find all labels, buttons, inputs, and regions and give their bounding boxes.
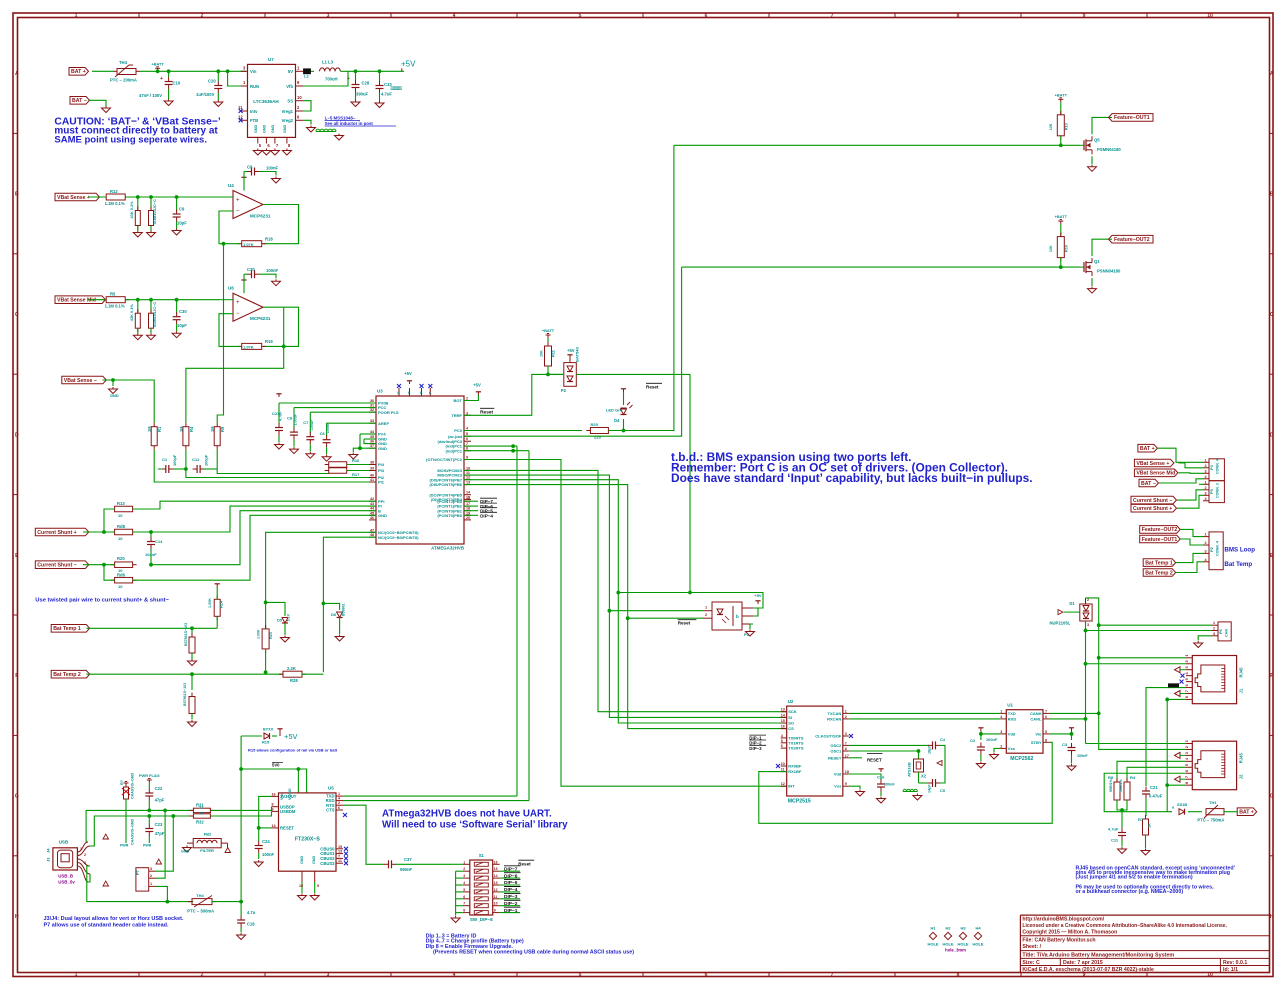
svg-text:2: 2 bbox=[1000, 744, 1002, 748]
svg-text:Id: 1/1: Id: 1/1 bbox=[1223, 967, 1238, 973]
svg-text:P2: P2 bbox=[561, 388, 567, 393]
svg-text:C: C bbox=[15, 312, 19, 318]
svg-text:39: 39 bbox=[370, 467, 374, 471]
svg-text:R10: R10 bbox=[1064, 123, 1069, 130]
svg-text:Vcc: Vcc bbox=[280, 793, 284, 800]
svg-text:1M: 1M bbox=[147, 426, 152, 432]
svg-text:Copyright 2015 — Milton A. T: Copyright 2015 — Milton A. Thomason bbox=[1022, 929, 1117, 935]
svg-text:1.07K: 1.07K bbox=[243, 345, 254, 350]
svg-text:GND: GND bbox=[312, 855, 316, 864]
svg-text:3: 3 bbox=[150, 867, 152, 871]
svg-text:3: 3 bbox=[84, 861, 86, 865]
svg-text:U1: U1 bbox=[1007, 703, 1013, 708]
svg-text:U2: U2 bbox=[788, 699, 794, 704]
svg-text:H1: H1 bbox=[930, 926, 936, 931]
svg-text:RUN: RUN bbox=[250, 84, 259, 89]
svg-text:J3/J4: Dual layout allows fo: J3/J4: Dual layout allows for vert or Ho… bbox=[44, 916, 184, 922]
svg-text:20: 20 bbox=[466, 516, 470, 520]
svg-text:−: − bbox=[236, 209, 240, 215]
svg-text:100pF: 100pF bbox=[204, 454, 209, 466]
svg-text:R24: R24 bbox=[219, 600, 224, 608]
svg-text:43K 0.1%: 43K 0.1% bbox=[129, 304, 134, 322]
svg-text:C11: C11 bbox=[1111, 838, 1119, 843]
svg-text:46: 46 bbox=[370, 516, 374, 520]
svg-text:1.1M 0.1%: 1.1M 0.1% bbox=[105, 304, 125, 309]
svg-text:8: 8 bbox=[272, 803, 274, 807]
svg-text:1: 1 bbox=[463, 860, 465, 864]
svg-text:10: 10 bbox=[297, 95, 302, 100]
svg-text:15: 15 bbox=[299, 884, 303, 888]
svg-text:32: 32 bbox=[370, 408, 374, 412]
svg-text:DIP−1: DIP−1 bbox=[504, 908, 518, 914]
svg-text:|||: ||| bbox=[397, 86, 402, 90]
svg-text:4: 4 bbox=[453, 13, 456, 19]
svg-text:SCK: SCK bbox=[788, 709, 797, 714]
svg-text:ATS16B: ATS16B bbox=[907, 762, 912, 777]
svg-text:DIP−2: DIP−2 bbox=[749, 741, 762, 746]
svg-text:2: 2 bbox=[1213, 627, 1215, 631]
svg-text:RESET: RESET bbox=[280, 826, 294, 831]
svg-text:CAN: CAN bbox=[1225, 629, 1229, 637]
svg-text:B57861S−103: B57861S−103 bbox=[184, 623, 188, 646]
svg-text:2: 2 bbox=[1205, 541, 1207, 545]
svg-text:43: 43 bbox=[370, 502, 374, 506]
svg-text:2: 2 bbox=[466, 397, 468, 401]
svg-text:Reset: Reset bbox=[646, 385, 659, 390]
svg-text:1K: 1K bbox=[1148, 823, 1152, 828]
svg-text:TXD: TXD bbox=[1008, 711, 1016, 716]
svg-text:P6: P6 bbox=[1218, 628, 1223, 634]
svg-text:R13: R13 bbox=[117, 501, 125, 506]
svg-text:Vdd: Vdd bbox=[1008, 731, 1016, 736]
svg-text:INT: INT bbox=[788, 784, 795, 789]
svg-text:DIP−2: DIP−2 bbox=[504, 901, 518, 907]
svg-text:100nF: 100nF bbox=[266, 166, 279, 171]
svg-text:2.2K: 2.2K bbox=[287, 666, 296, 671]
svg-text:TX1RTS: TX1RTS bbox=[788, 740, 804, 745]
svg-text:R18: R18 bbox=[265, 237, 273, 242]
svg-text:9: 9 bbox=[845, 782, 847, 786]
svg-text:6: 6 bbox=[705, 972, 708, 978]
svg-text:PC0: PC0 bbox=[454, 428, 463, 433]
svg-text:GND: GND bbox=[181, 850, 190, 854]
svg-text:4.7uF: 4.7uF bbox=[1108, 827, 1119, 832]
svg-text:RXCAN: RXCAN bbox=[827, 716, 841, 721]
svg-text:8: 8 bbox=[957, 13, 960, 19]
svg-text:A: A bbox=[15, 71, 19, 77]
svg-text:2: 2 bbox=[1087, 598, 1089, 602]
svg-text:G: G bbox=[1270, 794, 1274, 800]
svg-text:Reset: Reset bbox=[480, 410, 493, 416]
svg-text:700uH: 700uH bbox=[325, 77, 338, 82]
svg-text:15: 15 bbox=[338, 845, 342, 849]
svg-text:Current Shunt −: Current Shunt − bbox=[37, 563, 76, 569]
svg-text:7: 7 bbox=[338, 854, 340, 858]
svg-text:18pF: 18pF bbox=[928, 745, 932, 754]
svg-text:16: 16 bbox=[781, 725, 785, 729]
svg-text:or a bulkhead connector (e.g.: or a bulkhead connector (e.g. NMEA−2000) bbox=[1076, 889, 1184, 895]
svg-text:HOLE: HOLE bbox=[957, 942, 968, 947]
svg-text:14pF: 14pF bbox=[928, 784, 932, 793]
svg-text:Vin: Vin bbox=[250, 69, 257, 74]
svg-text:DIP−4: DIP−4 bbox=[504, 887, 518, 893]
svg-text:CONN_4: CONN_4 bbox=[1216, 540, 1220, 556]
svg-text:1: 1 bbox=[1213, 621, 1215, 625]
svg-text:Title: TiVa Arduino Battery Ma: Title: TiVa Arduino Battery Management/M… bbox=[1022, 952, 1174, 958]
svg-text:H3: H3 bbox=[960, 926, 966, 931]
svg-text:DIP−6: DIP−6 bbox=[504, 873, 518, 879]
svg-text:6: 6 bbox=[338, 806, 340, 810]
svg-text:PI1: PI1 bbox=[378, 480, 385, 485]
svg-text:7: 7 bbox=[466, 442, 468, 446]
svg-text:USB_5v: USB_5v bbox=[58, 880, 75, 885]
svg-text:C9: C9 bbox=[247, 165, 253, 170]
svg-text:S1: S1 bbox=[479, 853, 485, 858]
svg-text:41: 41 bbox=[370, 478, 374, 482]
svg-text:R15: R15 bbox=[262, 740, 270, 745]
svg-text:RJ45: RJ45 bbox=[1239, 667, 1244, 678]
svg-text:R12: R12 bbox=[110, 189, 118, 194]
svg-text:13: 13 bbox=[781, 708, 785, 712]
svg-text:R4: R4 bbox=[189, 426, 194, 432]
svg-text:Vreg2: Vreg2 bbox=[282, 118, 294, 123]
svg-text:PWR: PWR bbox=[120, 844, 129, 848]
svg-text:Q5: Q5 bbox=[1094, 137, 1100, 142]
svg-text:L2: L2 bbox=[304, 74, 309, 79]
svg-text:10: 10 bbox=[118, 513, 123, 518]
svg-text:D1: D1 bbox=[1069, 601, 1075, 606]
svg-text:38: 38 bbox=[370, 461, 374, 465]
svg-text:2: 2 bbox=[463, 867, 465, 871]
svg-text:12: 12 bbox=[466, 476, 470, 480]
svg-text:BAT +: BAT + bbox=[71, 69, 86, 75]
svg-text:DIP−5: DIP−5 bbox=[504, 880, 518, 886]
svg-text:ATmega32HVB does not have UART: ATmega32HVB does not have UART. bbox=[382, 809, 552, 820]
svg-text:11: 11 bbox=[466, 471, 470, 475]
svg-text:RX1BF: RX1BF bbox=[788, 769, 802, 774]
svg-text:FT230X−S: FT230X−S bbox=[295, 837, 320, 843]
svg-text:SO: SO bbox=[788, 721, 794, 726]
svg-text:Date: 7 apr 2015: Date: 7 apr 2015 bbox=[1063, 960, 1103, 966]
svg-text:BAT −: BAT − bbox=[72, 98, 87, 104]
svg-text:5: 5 bbox=[579, 13, 582, 19]
svg-text:3: 3 bbox=[1087, 623, 1089, 627]
svg-text:16: 16 bbox=[466, 497, 470, 501]
svg-text:GND: GND bbox=[110, 393, 119, 398]
svg-text:Use twisted pair wire to curre: Use twisted pair wire to current shunt+ … bbox=[35, 598, 169, 604]
svg-text:16: 16 bbox=[272, 792, 276, 796]
svg-text:Bat Temp 1: Bat Temp 1 bbox=[53, 626, 81, 632]
svg-text:59R/1%: 59R/1% bbox=[1119, 778, 1123, 792]
svg-text:PTC − 200mA: PTC − 200mA bbox=[110, 78, 137, 83]
svg-text:11: 11 bbox=[338, 859, 342, 863]
svg-text:Q1: Q1 bbox=[1094, 259, 1100, 264]
svg-text:PI3: PI3 bbox=[378, 468, 385, 473]
svg-text:1: 1 bbox=[338, 792, 340, 796]
svg-text:Vio: Vio bbox=[1035, 731, 1042, 736]
svg-text:100nF: 100nF bbox=[1077, 754, 1088, 758]
svg-text:C21: C21 bbox=[1150, 785, 1158, 790]
svg-text:D6: D6 bbox=[331, 612, 337, 617]
svg-text:PI4: PI4 bbox=[378, 462, 385, 467]
svg-text:+BATT: +BATT bbox=[1055, 214, 1068, 219]
svg-text:P7 allows use of standard head: P7 allows use of standard header cable i… bbox=[44, 923, 169, 929]
svg-text:VBat Sense Mid: VBat Sense Mid bbox=[57, 298, 96, 304]
svg-text:10K: 10K bbox=[1049, 245, 1053, 252]
svg-text:3: 3 bbox=[845, 732, 847, 736]
svg-text:D5: D5 bbox=[277, 618, 283, 623]
svg-text:17: 17 bbox=[845, 754, 849, 758]
svg-text:2: 2 bbox=[201, 972, 204, 978]
svg-text:PTC − 500mA: PTC − 500mA bbox=[187, 909, 214, 914]
svg-text:+5V: +5V bbox=[754, 593, 762, 598]
svg-text:Rd8: Rd8 bbox=[117, 524, 126, 529]
svg-text:BOT: BOT bbox=[454, 398, 463, 403]
svg-text:10: 10 bbox=[781, 762, 785, 766]
svg-text:3: 3 bbox=[1205, 549, 1207, 553]
svg-text:7: 7 bbox=[1184, 690, 1189, 692]
svg-text:BAT54S: BAT54S bbox=[575, 347, 580, 362]
svg-text:B: B bbox=[15, 192, 19, 198]
svg-text:R32: R32 bbox=[196, 820, 204, 825]
svg-text:RXD: RXD bbox=[1008, 716, 1017, 721]
svg-text:1: 1 bbox=[1205, 480, 1207, 484]
svg-text:5: 5 bbox=[781, 739, 783, 743]
svg-text:R19: R19 bbox=[265, 339, 273, 344]
svg-text:1.00uF: 1.00uF bbox=[294, 413, 298, 425]
svg-text:GND: GND bbox=[378, 446, 387, 451]
svg-text:Intv: Intv bbox=[250, 109, 258, 114]
svg-text:RESET: RESET bbox=[867, 758, 882, 763]
svg-text:5.1V: 5.1V bbox=[287, 613, 291, 621]
svg-text:NC/(OC0−B0/PCINT8): NC/(OC0−B0/PCINT8) bbox=[378, 535, 419, 540]
svg-text:Reset: Reset bbox=[678, 621, 691, 626]
svg-text:PTC − 750mA: PTC − 750mA bbox=[1197, 818, 1224, 823]
svg-text:8: 8 bbox=[957, 972, 960, 978]
svg-text:U7: U7 bbox=[268, 57, 274, 62]
svg-text:FILTER: FILTER bbox=[200, 848, 214, 853]
svg-text:R1: R1 bbox=[157, 426, 162, 432]
svg-text:R7: R7 bbox=[1138, 817, 1144, 822]
svg-text:R5: R5 bbox=[110, 292, 116, 297]
svg-text:1.07K: 1.07K bbox=[243, 242, 254, 247]
svg-text:Vdd: Vdd bbox=[834, 772, 842, 777]
svg-text:C: C bbox=[1270, 312, 1274, 318]
svg-text:C1: C1 bbox=[162, 457, 168, 462]
svg-text:B57861S−103: B57861S−103 bbox=[183, 683, 187, 706]
svg-text:R20: R20 bbox=[117, 556, 125, 561]
svg-text:(DIS/PCINT5)PB6: (DIS/PCINT5)PB6 bbox=[430, 482, 463, 487]
svg-text:VBat Sense Mid: VBat Sense Mid bbox=[1136, 471, 1175, 477]
svg-text:USBDM: USBDM bbox=[280, 809, 296, 814]
svg-text:CLKOUT/SOF: CLKOUT/SOF bbox=[815, 734, 842, 739]
svg-text:1.00K: 1.00K bbox=[257, 629, 261, 639]
svg-text:H: H bbox=[1270, 914, 1274, 920]
svg-text:17: 17 bbox=[466, 502, 470, 506]
svg-text:H2: H2 bbox=[945, 926, 951, 931]
svg-text:5: 5 bbox=[579, 972, 582, 978]
svg-text:100uF: 100uF bbox=[310, 419, 314, 430]
svg-text:VBat Sense −: VBat Sense − bbox=[64, 378, 97, 384]
svg-text:Vss: Vss bbox=[834, 784, 842, 789]
svg-text:MCP2562: MCP2562 bbox=[1010, 756, 1033, 762]
svg-text:1M: 1M bbox=[210, 426, 215, 432]
svg-text:100pF: 100pF bbox=[172, 454, 177, 466]
svg-text:2: 2 bbox=[201, 13, 204, 19]
svg-text:R?: R? bbox=[120, 779, 124, 785]
svg-text:+5V: +5V bbox=[284, 732, 298, 741]
svg-text:47: 47 bbox=[370, 528, 374, 532]
svg-text:7: 7 bbox=[831, 972, 834, 978]
svg-text:R17: R17 bbox=[352, 472, 360, 477]
svg-text:47pF: 47pF bbox=[155, 798, 165, 803]
svg-text:+: + bbox=[236, 198, 240, 204]
svg-text:100nF: 100nF bbox=[266, 268, 279, 273]
svg-text:5: 5 bbox=[463, 888, 465, 892]
svg-text:J3: J3 bbox=[46, 857, 51, 862]
svg-text:D: D bbox=[1270, 432, 1274, 438]
svg-text:15: 15 bbox=[494, 867, 498, 871]
svg-text:(Just jumper 4/1 and 5/2 to en: (Just jumper 4/1 and 5/2 to enable termi… bbox=[1076, 875, 1193, 881]
svg-text:1: 1 bbox=[1205, 458, 1207, 462]
svg-text:18: 18 bbox=[845, 770, 849, 774]
svg-text:J4: J4 bbox=[46, 848, 51, 853]
svg-text:CHASSIS−GND: CHASSIS−GND bbox=[131, 773, 135, 799]
svg-text:LED Grn: LED Grn bbox=[606, 407, 623, 412]
svg-text:b: b bbox=[736, 614, 739, 619]
svg-text:R11: R11 bbox=[551, 349, 556, 357]
svg-text:PWR: PWR bbox=[143, 844, 152, 848]
svg-text:SOM103JC−C: SOM103JC−C bbox=[152, 302, 157, 328]
svg-text:HOLE: HOLE bbox=[942, 942, 953, 947]
svg-text:GND: GND bbox=[300, 855, 304, 864]
svg-text:Current Shunt −: Current Shunt − bbox=[1133, 498, 1172, 504]
svg-text:PSNN04180: PSNN04180 bbox=[1097, 269, 1121, 274]
svg-text:2: 2 bbox=[84, 853, 86, 857]
svg-text:GND: GND bbox=[271, 124, 275, 133]
svg-text:OSC2: OSC2 bbox=[830, 743, 842, 748]
svg-text:C18: C18 bbox=[247, 922, 255, 927]
svg-text:11: 11 bbox=[494, 895, 498, 899]
svg-text:8: 8 bbox=[1045, 738, 1047, 742]
svg-text:Vss: Vss bbox=[1008, 746, 1016, 751]
svg-text:DIP−3: DIP−3 bbox=[749, 746, 762, 751]
svg-text:4: 4 bbox=[453, 972, 456, 978]
svg-text:7: 7 bbox=[845, 741, 847, 745]
svg-text:+BATT: +BATT bbox=[542, 328, 555, 333]
svg-text:(Prevents RESET when connectin: (Prevents RESET when connecting USB cabl… bbox=[433, 950, 634, 956]
svg-text:1: 1 bbox=[1205, 533, 1207, 537]
svg-text:http://arduinoBMS.blogspot.com: http://arduinoBMS.blogspot.com/ bbox=[1022, 917, 1104, 923]
svg-text:TH1: TH1 bbox=[1209, 800, 1217, 805]
svg-text:C24: C24 bbox=[262, 839, 270, 844]
svg-text:100nF: 100nF bbox=[986, 737, 998, 742]
svg-text:J2: J2 bbox=[1239, 774, 1244, 779]
svg-text:1: 1 bbox=[845, 709, 847, 713]
svg-text:7: 7 bbox=[463, 902, 465, 906]
svg-text:CTS: CTS bbox=[326, 808, 335, 813]
svg-text:Does have standard ‘Input’ cap: Does have standard ‘Input’ capability, b… bbox=[671, 471, 1033, 485]
svg-text:(OTN/OCT/INT)PC2: (OTN/OCT/INT)PC2 bbox=[426, 457, 463, 462]
svg-text:SOM103JC−C: SOM103JC−C bbox=[152, 199, 157, 225]
svg-text:OSC1: OSC1 bbox=[830, 749, 842, 754]
svg-text:3: 3 bbox=[1213, 632, 1215, 636]
svg-text:15: 15 bbox=[781, 719, 785, 723]
svg-text:U4: U4 bbox=[228, 183, 234, 188]
svg-text:59R/1%: 59R/1% bbox=[1109, 778, 1113, 792]
svg-text:11: 11 bbox=[781, 768, 785, 772]
svg-text:Size: C: Size: C bbox=[1022, 960, 1040, 966]
svg-text:1: 1 bbox=[80, 847, 82, 851]
svg-text:Feature−OUT2: Feature−OUT2 bbox=[1114, 237, 1150, 243]
svg-text:4: 4 bbox=[463, 881, 465, 885]
svg-text:MCP6231: MCP6231 bbox=[250, 214, 271, 219]
svg-text:C4: C4 bbox=[940, 737, 946, 742]
svg-text:DIP−7: DIP−7 bbox=[504, 866, 518, 872]
svg-text:1.00K: 1.00K bbox=[208, 598, 212, 608]
svg-text:RESET: RESET bbox=[828, 755, 842, 760]
svg-text:GND: GND bbox=[262, 124, 266, 133]
svg-text:Feature−OUT1: Feature−OUT1 bbox=[1114, 115, 1150, 121]
svg-text:CANL: CANL bbox=[1030, 716, 1042, 721]
svg-text:C7: C7 bbox=[303, 420, 309, 425]
svg-text:R8: R8 bbox=[1108, 775, 1114, 780]
svg-text:5V: 5V bbox=[288, 69, 293, 74]
svg-text:220: 220 bbox=[594, 435, 602, 440]
svg-text:+BATT: +BATT bbox=[1055, 92, 1068, 97]
svg-text:hole_3mm: hole_3mm bbox=[945, 948, 966, 953]
svg-text:J1: J1 bbox=[1239, 688, 1244, 693]
svg-text:C19: C19 bbox=[173, 81, 181, 86]
svg-text:9: 9 bbox=[466, 456, 468, 460]
svg-text:18: 18 bbox=[466, 507, 470, 511]
svg-text:100nF: 100nF bbox=[884, 783, 895, 787]
svg-text:8: 8 bbox=[466, 447, 468, 451]
svg-text:6: 6 bbox=[466, 437, 468, 441]
svg-text:10: 10 bbox=[118, 584, 123, 589]
svg-text:3: 3 bbox=[327, 972, 330, 978]
svg-text:BYXX: BYXX bbox=[263, 728, 274, 732]
svg-text:L1 L3: L1 L3 bbox=[322, 60, 334, 65]
svg-text:C16: C16 bbox=[877, 775, 885, 780]
svg-text:CONN_4: CONN_4 bbox=[1216, 458, 1220, 474]
svg-text:14: 14 bbox=[494, 874, 498, 878]
svg-text:USB: USB bbox=[59, 840, 69, 845]
svg-text:R9: R9 bbox=[220, 426, 225, 432]
svg-text:SS1B: SS1B bbox=[1177, 802, 1187, 807]
svg-text:C12: C12 bbox=[192, 457, 200, 462]
svg-text:6: 6 bbox=[705, 13, 708, 19]
svg-text:MCP6231: MCP6231 bbox=[250, 316, 271, 321]
svg-text:P2: P2 bbox=[1209, 546, 1214, 552]
svg-text:Current Shunt +: Current Shunt + bbox=[37, 530, 76, 536]
svg-text:See all inductor in post: See all inductor in post bbox=[325, 121, 374, 126]
svg-text:Feature−OUT1: Feature−OUT1 bbox=[1142, 537, 1178, 543]
svg-text:C20: C20 bbox=[208, 79, 216, 84]
svg-text:0.47uF: 0.47uF bbox=[1149, 794, 1163, 799]
svg-text:Sheet: /: Sheet: / bbox=[1022, 944, 1041, 950]
svg-text:SW_DIP−8: SW_DIP−8 bbox=[470, 917, 493, 922]
svg-text:File: CAN Battery Monitor.sch: File: CAN Battery Monitor.sch bbox=[1022, 938, 1095, 944]
svg-text:1.1M 0.1%: 1.1M 0.1% bbox=[105, 201, 125, 206]
svg-text:42: 42 bbox=[370, 497, 374, 501]
svg-text:Licensed under a Creative Comm: Licensed under a Creative Commons Attrib… bbox=[1022, 923, 1227, 929]
svg-text:D4: D4 bbox=[614, 418, 620, 423]
svg-text:10pF: 10pF bbox=[177, 221, 187, 226]
svg-text:19: 19 bbox=[466, 511, 470, 515]
svg-text:9: 9 bbox=[494, 909, 496, 913]
svg-text:45: 45 bbox=[370, 511, 374, 515]
